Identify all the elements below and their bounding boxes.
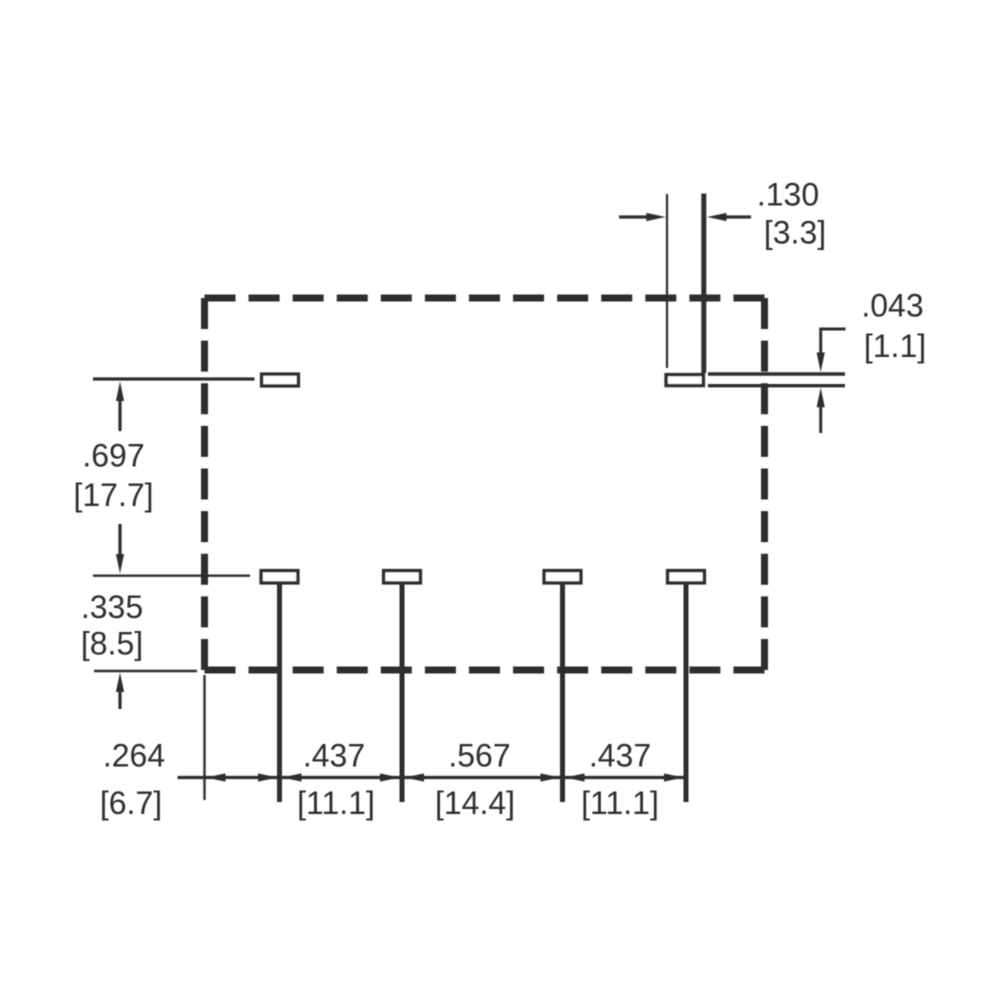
svg-text:[6.7]: [6.7]: [100, 785, 162, 821]
svg-text:.697: .697: [82, 438, 144, 474]
svg-text:[8.5]: [8.5]: [81, 626, 143, 662]
svg-text:[11.1]: [11.1]: [297, 785, 375, 821]
svg-text:.567: .567: [448, 738, 510, 774]
svg-text:.437: .437: [303, 738, 365, 774]
svg-text:[17.7]: [17.7]: [73, 477, 153, 513]
svg-text:.335: .335: [81, 589, 143, 625]
svg-text:[1.1]: [1.1]: [864, 328, 926, 364]
svg-text:[11.1]: [11.1]: [581, 785, 659, 821]
svg-text:[3.3]: [3.3]: [764, 215, 826, 251]
svg-text:.437: .437: [589, 738, 651, 774]
svg-text:.264: .264: [103, 738, 165, 774]
svg-text:.043: .043: [861, 288, 923, 324]
svg-text:.130: .130: [757, 177, 819, 213]
svg-text:[14.4]: [14.4]: [435, 785, 515, 821]
